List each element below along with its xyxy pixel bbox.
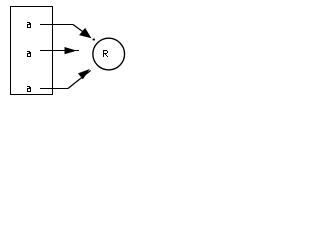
node R circle xyxy=(93,38,125,70)
label R xyxy=(103,50,108,57)
arrowhead top xyxy=(80,29,91,38)
label a (top) xyxy=(27,22,31,28)
wire bottom horizontal xyxy=(40,88,68,90)
wire top diagonal xyxy=(73,24,90,36)
wire middle horizontal xyxy=(40,50,79,52)
background xyxy=(0,0,127,100)
wire top horizontal xyxy=(40,24,73,26)
label a (middle) xyxy=(27,51,31,57)
arrowhead bottom xyxy=(79,70,89,79)
box (left rectangle) xyxy=(11,7,53,95)
arrowhead middle xyxy=(65,48,76,54)
wire bottom diagonal xyxy=(68,71,91,89)
top arrow tip dot xyxy=(93,39,95,41)
label a (bottom) xyxy=(27,86,31,92)
